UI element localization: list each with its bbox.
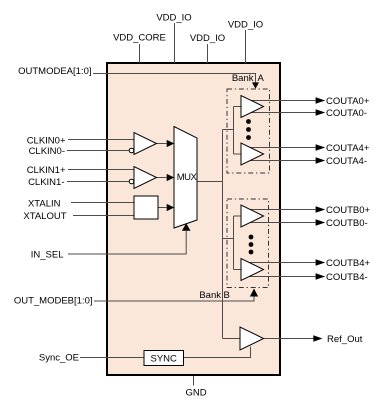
wire trunk vertical [222, 130, 224, 339]
wire CLKIN0+ [68, 139, 134, 141]
svg-text:Ref_Out: Ref_Out [327, 334, 363, 345]
svg-text:CLKIN1+: CLKIN1+ [27, 165, 66, 176]
svg-text:SYNC: SYNC [150, 353, 177, 364]
wire buffer A0 input [234, 106, 242, 108]
wire IN_SEL to MUX select [68, 231, 186, 254]
Bank B dashed group box [227, 199, 269, 288]
svg-text:MUX: MUX [177, 172, 198, 183]
svg-text:COUTA0+: COUTA0+ [326, 96, 370, 107]
wire Bank B input rail [233, 216, 235, 270]
power pin VDD_CORE wire [139, 44, 141, 63]
wire buffer B4 input [234, 269, 242, 271]
svg-text:Bank: Bank [199, 290, 221, 301]
svg-text:XTALIN: XTALIN [28, 199, 61, 210]
svg-text:VDD_IO: VDD_IO [228, 20, 263, 31]
arrowhead COUTB0+ [316, 206, 326, 212]
arrowhead into MUX from XTAL [167, 204, 175, 211]
wire buffer U2 output to MUX [157, 177, 167, 179]
arrowhead COUTB4- [316, 273, 326, 279]
wire COUTA0- [246, 112, 316, 114]
wire Ref_Out [264, 338, 314, 340]
Bank A dashed group box [227, 89, 270, 173]
wire buffer B0 input [234, 215, 242, 217]
main block boundary [107, 63, 280, 375]
wire COUTB0- [246, 222, 316, 224]
wire CLKIN1+ [68, 169, 134, 171]
wire Bank B feed [223, 238, 234, 240]
svg-text:A: A [258, 73, 265, 84]
svg-text:COUTB4-: COUTB4- [326, 272, 368, 283]
svg-text:CLKIN0-: CLKIN0- [29, 146, 65, 157]
wire COUTB4+ [246, 262, 316, 264]
wire CLKIN0- [67, 150, 129, 152]
wire SYNC to Ref_Out buffer [184, 347, 251, 358]
svg-text:IN_SEL: IN_SEL [31, 250, 64, 261]
output buffer B0 [241, 205, 264, 227]
XTAL block [134, 196, 158, 219]
arrowhead into MUX from U2 [167, 174, 175, 181]
wire COUTB0+ [246, 209, 316, 211]
arrowhead IN_SEL into MUX select [182, 223, 191, 231]
input buffer U2 (CLKIN1) [134, 167, 157, 189]
inverting bubble on CLKIN1- [129, 179, 134, 184]
inverting bubble on CLKIN0- [129, 148, 134, 153]
output buffer B4 [241, 259, 264, 281]
arrowhead Ref_Out [313, 335, 322, 341]
svg-text:OUT_MODEB[1:0]: OUT_MODEB[1:0] [14, 296, 93, 307]
arrowhead COUTA0- [316, 109, 326, 115]
arrowhead COUTA4- [316, 157, 326, 163]
wire COUTA0+ [246, 100, 316, 102]
svg-text:XTALOUT: XTALOUT [23, 211, 66, 222]
svg-text:B: B [224, 290, 230, 301]
svg-text:CLKIN1-: CLKIN1- [28, 177, 64, 188]
arrowhead COUTA0+ [316, 97, 326, 103]
wire XTALIN [71, 202, 134, 204]
svg-text:CLKIN0+: CLKIN0+ [27, 136, 66, 147]
arrowhead COUTB4+ [316, 259, 326, 265]
input buffer U1 (CLKIN0) [134, 133, 157, 155]
wire Bank A input rail [233, 107, 235, 155]
wire COUTA4+ [246, 147, 316, 149]
arrowhead COUTA4+ [316, 144, 326, 150]
arrowhead into MUX from U1 [167, 140, 175, 147]
svg-text:GND: GND [185, 388, 206, 399]
arrowhead Bank B select (up) [250, 289, 258, 297]
svg-text:COUTB4+: COUTB4+ [326, 258, 371, 269]
wire Sync_OE to SYNC [80, 357, 144, 359]
wire buffer A4 input [234, 153, 242, 155]
svg-text:COUTA4+: COUTA4+ [326, 143, 370, 154]
arrowhead Bank A select (down) [252, 82, 259, 88]
svg-text:Bank: Bank [232, 73, 254, 84]
wire CLKIN1- [67, 181, 129, 183]
power pin VDD_IO (2) wire [207, 44, 209, 63]
dots Bank A [246, 119, 251, 124]
wire OUTMODEA[1:0] to Bank A [93, 74, 256, 83]
svg-text:OUTMODEA[1:0]: OUTMODEA[1:0] [18, 66, 91, 77]
wire COUTB4- [246, 276, 316, 278]
wire COUTA4- [246, 160, 316, 162]
wire XTALOUT [73, 215, 134, 217]
ground GND wire [193, 376, 195, 386]
svg-text:VDD_IO: VDD_IO [190, 33, 225, 44]
power pin VDD_IO (1) wire [174, 23, 176, 63]
svg-text:COUTA0-: COUTA0- [326, 108, 367, 119]
wire MUX output trunk [197, 181, 223, 183]
svg-text:COUTB0-: COUTB0- [326, 218, 368, 229]
svg-text:Sync_OE: Sync_OE [39, 352, 79, 363]
wire OUT_MODEB[1:0] to Bank B [94, 297, 254, 302]
svg-text:VDD_CORE: VDD_CORE [113, 33, 166, 44]
SYNC block [144, 351, 184, 366]
svg-text:COUTA4-: COUTA4- [326, 156, 367, 167]
output buffer A4 [241, 143, 264, 165]
wire buffer U1 output to MUX [157, 143, 167, 145]
wire XTAL block output to MUX [158, 207, 167, 209]
svg-text:COUTB0+: COUTB0+ [326, 205, 371, 216]
svg-text:VDD_IO: VDD_IO [156, 13, 191, 24]
output buffer Ref_Out [240, 327, 264, 350]
mux U3 MUX [174, 127, 197, 229]
wire Ref_Out buffer feed [223, 338, 241, 340]
output buffer A0 [241, 96, 264, 118]
arrowhead COUTB0- [316, 219, 326, 225]
wire Bank A feed [223, 129, 234, 131]
power pin VDD_IO (3) wire [245, 30, 247, 63]
dots Bank B [249, 235, 254, 240]
